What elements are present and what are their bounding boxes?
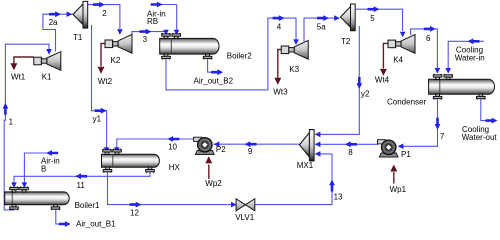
arrow on Cooling Water-in wire	[468, 38, 480, 44]
svg-text:K4: K4	[393, 56, 403, 65]
arrow on wire 8	[345, 141, 357, 147]
svg-text:T1: T1	[73, 33, 83, 42]
svg-text:P1: P1	[401, 150, 411, 159]
wire Cooling Water-out	[481, 98, 492, 120]
compressor K2	[105, 34, 132, 53]
svg-text:Boiler1: Boiler1	[75, 201, 100, 210]
arrow into K3	[293, 39, 299, 45]
HX top flange 1	[103, 149, 112, 155]
svg-text:y1: y1	[93, 114, 102, 123]
compressor K4	[388, 35, 415, 54]
svg-text:Boiler2: Boiler2	[227, 51, 252, 60]
wire 12: HX outlet to VLV1	[108, 171, 237, 204]
arrow into K4	[400, 32, 406, 38]
pump P2	[194, 137, 215, 154]
wire y2: T2 outlet to MX1 top port	[315, 26, 359, 134]
svg-text:8: 8	[348, 148, 353, 157]
svg-text:2: 2	[102, 9, 107, 18]
svg-text:Wt4: Wt4	[375, 76, 390, 85]
svg-text:13: 13	[334, 192, 343, 201]
svg-text:Wt3: Wt3	[273, 88, 288, 97]
arrow into K1	[46, 49, 52, 55]
arrow into T2	[334, 15, 340, 21]
svg-text:5: 5	[370, 14, 375, 23]
turbine T1	[73, 1, 88, 28]
arrow on wire 5a	[317, 15, 329, 21]
svg-text:6: 6	[426, 34, 431, 43]
svg-text:4: 4	[277, 22, 282, 31]
mixer MX1	[299, 130, 314, 161]
svg-text:HX: HX	[169, 163, 181, 172]
svg-text:VLV1: VLV1	[235, 213, 255, 222]
wire 2a: K1 outlet to T1 inlet	[43, 14, 73, 51]
svg-text:7: 7	[440, 132, 445, 141]
arrow on wire 9	[245, 141, 257, 147]
arrow into Condenser port 1	[435, 68, 441, 74]
work arrow Wp1	[390, 165, 397, 172]
condenser bottom flange 1	[433, 94, 442, 100]
arrow on wire 10	[167, 136, 179, 142]
wire 4: Boiler2 outlet to K3 inlet	[166, 18, 296, 90]
wire Air-in B to Boiler1 port 2	[24, 153, 58, 184]
condenser top flange 1	[433, 74, 442, 80]
work arrow Wt2	[98, 67, 105, 74]
work wire Wt4	[383, 43, 388, 68]
svg-text:Water-out: Water-out	[462, 133, 498, 142]
arrow up on wire 1	[3, 103, 9, 115]
svg-text:RB: RB	[147, 17, 158, 26]
svg-text:K2: K2	[111, 56, 121, 65]
Boiler1 bottom flange 1	[10, 205, 19, 211]
arrow into HX port 1	[104, 147, 110, 153]
wire Air_out_B2	[208, 58, 218, 72]
work arrow Wt4	[380, 69, 387, 76]
HX bottom flange 1	[103, 167, 112, 173]
Boiler1 top flange 2	[20, 187, 29, 193]
arrow into Boiler2 port 2	[174, 30, 180, 36]
wire 9: MX1 outlet to P2	[213, 143, 299, 145]
svg-text:1: 1	[9, 117, 14, 126]
condenser bottom flange 2	[477, 94, 486, 100]
arrow into K2	[117, 29, 123, 35]
svg-text:10: 10	[168, 143, 177, 152]
svg-text:Air_out_B2: Air_out_B2	[194, 77, 234, 86]
wire 3: K2 outlet to Boiler2	[132, 32, 166, 35]
wire 11: HX outlet to Boiler1 port 1	[14, 171, 150, 183]
arrow on Air-in RB wire	[151, 2, 163, 8]
arrow right on wire y1	[95, 108, 107, 114]
svg-text:K1: K1	[42, 72, 52, 81]
arrow into HX port 2	[114, 147, 120, 153]
arrow into MX1 top port	[315, 132, 321, 138]
condenser top flange 2	[444, 74, 453, 80]
wire 1: Boiler1 outlet to K1 inlet	[4, 44, 49, 210]
compressor K3	[281, 40, 308, 59]
work arrow Wt1	[10, 63, 17, 70]
wire 7: Condenser outlet to P1	[399, 98, 438, 146]
work wire Wt3	[278, 50, 281, 78]
boiler Boiler2	[160, 38, 219, 54]
wire 8: P1 outlet to MX1 middle port	[315, 143, 378, 145]
work wire Wt2	[101, 44, 105, 67]
svg-text:y2: y2	[361, 90, 370, 99]
arrow into T1	[67, 11, 73, 17]
svg-text:5a: 5a	[317, 22, 326, 31]
arrow on wire 12	[130, 202, 142, 208]
svg-text:T2: T2	[341, 37, 351, 46]
svg-text:Condenser: Condenser	[387, 97, 426, 106]
arrow Air_out_B2	[211, 69, 223, 75]
svg-text:Air_out_B1: Air_out_B1	[76, 219, 116, 228]
turbine T2	[341, 4, 356, 31]
work wire Wt1	[14, 57, 34, 64]
svg-text:Wt1: Wt1	[11, 72, 26, 81]
Boiler2 bottom flange 2	[203, 54, 212, 60]
arrow Air_out_B1	[59, 221, 71, 227]
arrow on wire 6	[424, 26, 436, 32]
wire 2: T1 outlet to K2 inlet	[88, 5, 120, 30]
arrow into Boiler1 port 2	[22, 182, 28, 188]
svg-text:Water-in: Water-in	[455, 54, 485, 63]
arrow on Air-in B wire	[46, 150, 58, 156]
svg-text:2a: 2a	[49, 18, 58, 27]
arrow on wire 11	[75, 173, 87, 179]
work wire Wp2	[208, 165, 210, 180]
svg-text:P2: P2	[216, 145, 226, 154]
Boiler2 bottom flange 1	[162, 54, 171, 60]
arrow into VLV1	[231, 202, 237, 208]
arrow down on wire y2	[356, 77, 362, 89]
condenser	[429, 79, 495, 94]
valve VLV1	[236, 199, 255, 211]
work arrow Wp2	[205, 156, 212, 163]
arrow into Boiler2 port 1	[163, 30, 169, 36]
svg-text:Wp2: Wp2	[205, 179, 222, 188]
arrow into P1	[398, 144, 404, 150]
arrow on wire 4	[273, 15, 285, 21]
compressor K1	[34, 52, 61, 71]
Boiler1 bottom flange 2	[51, 205, 60, 211]
arrow on wire 5	[368, 6, 380, 12]
arrow up on wire 13	[329, 180, 335, 192]
arrow Cooling Water-out	[486, 118, 498, 124]
wire y1: T1 outlet to HX port 1	[92, 25, 107, 149]
wire 13: VLV1 outlet to MX1 bottom port	[255, 154, 332, 205]
wire 5a: K3 outlet to T2 inlet	[304, 18, 340, 41]
svg-text:11: 11	[77, 181, 86, 190]
arrow on wire 3	[140, 29, 152, 35]
HX bottom flange 2	[146, 167, 155, 173]
Boiler1 top flange 1	[10, 187, 19, 193]
svg-text:9: 9	[248, 147, 253, 156]
svg-text:Wt2: Wt2	[98, 77, 113, 86]
arrow into Condenser port 2	[445, 68, 451, 74]
svg-text:Wp1: Wp1	[390, 185, 407, 194]
work arrow Wt3	[274, 78, 281, 85]
boiler Boiler1	[5, 192, 70, 205]
svg-text:B: B	[41, 164, 46, 173]
Boiler2 top flange 1	[162, 33, 171, 39]
arrow into MX1 bottom port	[315, 151, 321, 157]
wire Air_out_B1	[56, 209, 65, 225]
wire Cooling Water-in	[448, 41, 484, 68]
arrow into Boiler1 port 1	[11, 182, 17, 188]
svg-text:3: 3	[143, 35, 148, 44]
wire 10: P2 outlet to HX port 2	[117, 139, 194, 149]
heat exchanger HX	[102, 154, 160, 167]
pump P1	[378, 140, 399, 157]
svg-text:K3: K3	[289, 65, 299, 74]
arrow into MX1 middle port	[315, 142, 321, 148]
wire 5: T2 outlet to K4 inlet	[356, 9, 403, 31]
arrow on wire 2	[93, 2, 105, 8]
wire 6: K4 outlet to Condenser	[411, 29, 438, 69]
svg-text:MX1: MX1	[297, 161, 314, 170]
svg-text:12: 12	[130, 209, 139, 218]
arrow down on wire 7	[435, 118, 441, 130]
wire Air-in RB to Boiler2	[151, 5, 177, 31]
HX top flange 2	[113, 149, 122, 155]
arrow on wire 2a	[49, 11, 61, 17]
Boiler2 top flange 2	[172, 33, 181, 39]
work wire Wp1	[393, 172, 395, 184]
arrow into P2	[214, 141, 220, 147]
